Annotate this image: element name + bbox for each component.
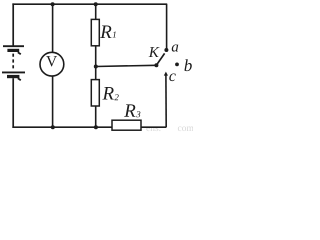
node junction top voltmeter bbox=[51, 2, 55, 6]
battery B1 bbox=[2, 46, 25, 80]
node c wire with arrow bbox=[164, 72, 176, 128]
watermark bbox=[146, 127, 193, 132]
wire right (top corner down to contact a) bbox=[166, 4, 168, 49]
node junction middle bbox=[94, 65, 98, 69]
resistor R1 bbox=[91, 19, 115, 45]
node junction bottom R2 bbox=[94, 125, 98, 129]
node junction bottom voltmeter bbox=[51, 125, 55, 129]
wire R1-R2 branch bbox=[95, 4, 97, 127]
wire left upper bbox=[12, 3, 14, 45]
switch K pivot bbox=[154, 63, 158, 67]
wire bottom bbox=[12, 126, 166, 128]
switch K blade bbox=[156, 53, 164, 65]
label K bbox=[149, 47, 160, 57]
voltmeter V bbox=[40, 52, 64, 76]
resistor R2 bbox=[91, 80, 118, 106]
wire voltmeter branch bbox=[52, 4, 54, 127]
resistor R3 bbox=[112, 104, 141, 130]
node junction top R1 bbox=[94, 2, 98, 6]
wire middle (junction to switch pivot) bbox=[96, 65, 157, 66]
wire top bbox=[12, 3, 167, 5]
node b bbox=[175, 59, 192, 71]
wire left lower bbox=[12, 78, 14, 128]
node a bbox=[164, 44, 178, 52]
